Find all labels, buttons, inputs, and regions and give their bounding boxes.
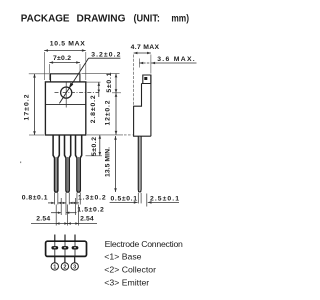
svg-text:3.6 MAX.: 3.6 MAX.: [157, 56, 195, 63]
svg-text:PACKAGE: PACKAGE: [21, 13, 70, 24]
ext top tab right: [82, 73, 120, 75]
bottom view outline: [46, 241, 87, 256]
svg-text:10.5 MAX: 10.5 MAX: [50, 41, 85, 48]
svg-text:mm): mm): [171, 13, 189, 24]
circled numbers: [51, 263, 58, 270]
svg-text:<3> Emitter: <3> Emitter: [104, 277, 149, 287]
leg edge ext lines: [54, 193, 56, 205]
front view tab: [51, 74, 80, 82]
leader 3.2: [59, 58, 88, 103]
svg-text:2.54: 2.54: [36, 216, 50, 223]
svg-text:DRAWING: DRAWING: [77, 13, 126, 24]
svg-text:1.3±0.2: 1.3±0.2: [78, 195, 106, 202]
svg-text:0.5±0.1: 0.5±0.1: [111, 195, 138, 202]
dim 0.5 / 2.5 side lead: [110, 201, 138, 203]
mounting hole: [61, 87, 72, 98]
leg 1: [53, 135, 59, 192]
svg-text:2.54: 2.54: [80, 216, 94, 223]
svg-text:1.5±0.2: 1.5±0.2: [77, 207, 104, 214]
side view hole mark: [144, 77, 147, 80]
side view body: [134, 75, 151, 136]
svg-text:2.5±0.1: 2.5±0.1: [150, 195, 179, 202]
stems below: [54, 256, 56, 262]
svg-text:Electrode Connection: Electrode Connection: [105, 239, 183, 249]
svg-text:5±0.2: 5±0.2: [91, 137, 98, 156]
svg-text:4.7 MAX: 4.7 MAX: [131, 44, 160, 51]
svg-text:17±0.2: 17±0.2: [24, 94, 31, 120]
svg-text:7±0.2: 7±0.2: [53, 55, 71, 62]
scan speck: [20, 162, 21, 164]
svg-text:1: 1: [53, 265, 56, 271]
svg-text:2: 2: [63, 265, 66, 271]
svg-text:0.8±0.1: 0.8±0.1: [22, 195, 48, 202]
svg-text:2.8±0.2: 2.8±0.2: [90, 95, 97, 123]
dim row y203: [48, 202, 55, 204]
pads: [51, 246, 58, 249]
svg-text:<1> Base: <1> Base: [104, 252, 141, 262]
svg-text:5±0.1: 5±0.1: [106, 72, 113, 92]
bottom view leads above: [54, 235, 56, 242]
leg 3: [76, 135, 82, 192]
side view top section: [143, 75, 151, 84]
svg-text:<2> Collector: <2> Collector: [104, 265, 156, 275]
front view body: [45, 82, 85, 135]
side view lead: [138, 136, 141, 192]
body step line: [45, 104, 85, 106]
svg-text:13.5 MIN.: 13.5 MIN.: [104, 147, 111, 177]
svg-text:(UNIT:: (UNIT:: [134, 13, 161, 24]
svg-text:12±0.2: 12±0.2: [104, 100, 111, 125]
leg 2: [65, 135, 71, 192]
hole vertical centerline: [65, 82, 67, 107]
leads through bottom view: [54, 242, 56, 256]
svg-text:3.2±0.2: 3.2±0.2: [91, 52, 120, 59]
hole horizontal centerline: [55, 92, 99, 94]
svg-text:3: 3: [73, 265, 76, 271]
